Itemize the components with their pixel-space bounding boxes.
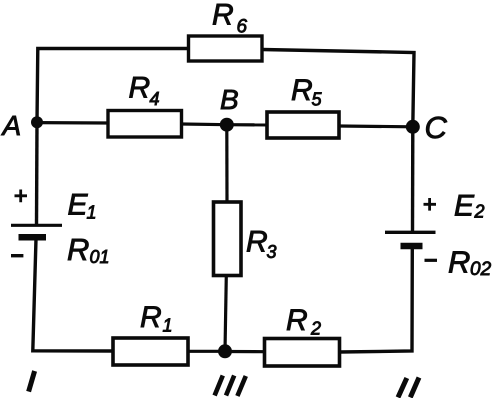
wire: III to R2 [225,350,265,353]
svg-text:E: E [454,190,475,223]
svg-text:1: 1 [87,203,97,223]
label III [215,376,246,397]
svg-text:R: R [67,232,89,267]
svg-text:01: 01 [90,247,110,267]
resistor R4 [108,111,182,138]
svg-text:R: R [129,72,151,105]
label E2 [454,190,485,223]
label R02 [448,245,492,281]
svg-text:2: 2 [310,319,321,339]
node C [406,120,420,134]
battery E2 positive plate [385,231,436,234]
wire: R5 to node C [339,124,413,128]
resistor R3 [214,202,242,276]
minus sign E1 [11,254,23,257]
label R6 [212,0,248,38]
wire: left rail top corner to R6 (top rail left) [37,49,189,123]
battery E2 negative plate [401,243,423,250]
svg-text:5: 5 [312,90,323,110]
label II [398,378,419,398]
battery E1 positive plate [11,224,62,227]
label C [425,110,448,145]
label R2 [286,304,321,339]
wire: B down to R3 [225,125,228,203]
svg-text:R: R [140,301,162,334]
svg-text:R: R [291,74,313,107]
svg-text:6: 6 [237,17,248,38]
svg-text:2: 2 [474,202,485,222]
wire: C down to battery E2 [411,127,415,232]
svg-text:1: 1 [163,316,173,336]
svg-text:R: R [246,226,268,259]
resistor R5 [267,112,339,138]
svg-text:E: E [68,189,89,222]
svg-text:A: A [1,110,22,141]
svg-text:02: 02 [470,259,492,280]
wire: R6 to top-right corner, down to node C [262,50,414,128]
node III [218,344,232,358]
wire: E1 down to bottom-left corner [33,239,114,351]
label R1 [140,301,173,336]
svg-text:R: R [448,245,470,280]
svg-text:B: B [220,84,239,115]
svg-text:R: R [212,0,234,32]
svg-text:3: 3 [267,242,277,262]
wire: A to R4 [37,121,109,125]
label B [220,84,239,115]
wire: A down to battery E1 [35,122,39,225]
label A [1,110,22,141]
resistor R6 [189,36,263,61]
label R4 [129,72,160,110]
svg-text:4: 4 [150,89,160,109]
wire: B to R5 [227,123,268,126]
plus sign E2 [424,198,437,211]
label R01 [67,232,110,267]
plus sign E1 [15,190,28,203]
wire: R3 down to node III [225,276,226,352]
node A [31,116,43,128]
label R5 [291,74,323,110]
resistor R1 [113,338,188,365]
label E1 [68,189,97,223]
battery E1 negative plate [19,234,47,241]
node B [220,118,234,132]
wire: R4 to node B [182,122,228,126]
svg-text:R: R [286,304,308,337]
minus sign E2 [425,259,438,262]
svg-text:C: C [425,110,448,145]
wire: R1 to node III [188,350,225,353]
resistor R2 [265,339,340,367]
wire: R2 to bottom-right corner, up to battery E2 [340,248,413,352]
label R3 [246,226,277,263]
label I [29,371,35,392]
